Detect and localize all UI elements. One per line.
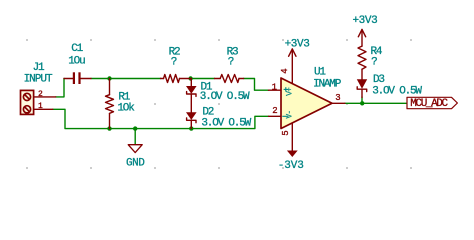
svg-text:C1: C1	[71, 43, 83, 55]
svg-text:?: ?	[171, 56, 177, 68]
svg-text:V+: V+	[286, 87, 295, 96]
svg-text:INAMP: INAMP	[313, 79, 342, 91]
svg-text:1Ok: 1Ok	[117, 103, 135, 115]
svg-text:GND: GND	[126, 158, 145, 170]
svg-text:D3: D3	[373, 74, 384, 86]
svg-text:5: 5	[281, 130, 291, 135]
svg-text:?: ?	[228, 56, 234, 68]
svg-text:1: 1	[272, 83, 277, 93]
svg-text:1Ou: 1Ou	[68, 56, 85, 68]
svg-text:4: 4	[280, 68, 290, 73]
svg-text:-3V3: -3V3	[278, 160, 304, 172]
svg-text:1: 1	[38, 102, 43, 111]
svg-text:2: 2	[38, 90, 43, 99]
svg-text:?: ?	[371, 57, 377, 69]
svg-text:INPUT: INPUT	[24, 73, 53, 85]
svg-text:3: 3	[335, 93, 340, 103]
svg-text:3.OV O.5W: 3.OV O.5W	[200, 91, 250, 103]
svg-text:+3V3: +3V3	[285, 39, 310, 51]
svg-text:V-: V-	[286, 111, 295, 119]
svg-text:MCU_ADC: MCU_ADC	[410, 98, 448, 110]
svg-text:3.OV O.5W: 3.OV O.5W	[201, 117, 251, 129]
svg-text:+3V3: +3V3	[352, 15, 377, 27]
svg-text:U1: U1	[314, 67, 326, 79]
svg-text:2: 2	[272, 106, 277, 116]
svg-text:J1: J1	[33, 62, 45, 74]
svg-text:3.OV O.5W: 3.OV O.5W	[372, 86, 422, 98]
